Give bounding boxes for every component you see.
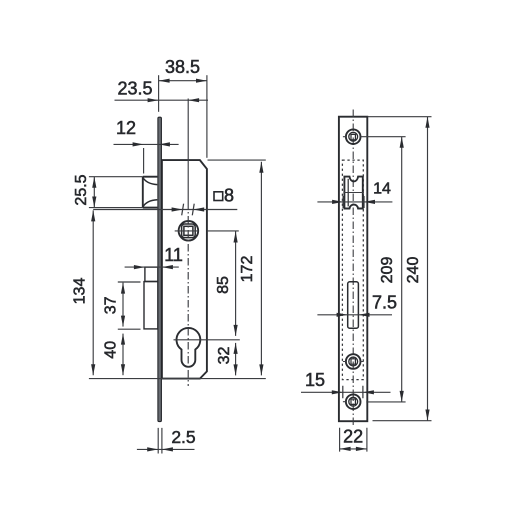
dimension 37/40 shared extension xyxy=(118,328,141,330)
dimension 37 line xyxy=(122,283,124,327)
follower center extension to 85 dimension xyxy=(207,230,239,232)
dimension 209 top extension / hole centerline xyxy=(360,136,405,138)
dimension 240 bottom extension xyxy=(373,420,432,422)
25.5 arrows xyxy=(92,177,96,188)
follower horizontal centerline xyxy=(175,230,199,232)
dimension 209 line xyxy=(401,137,403,402)
11 arrows xyxy=(134,265,145,269)
7.5 arrows xyxy=(337,313,348,317)
dimension 172 line xyxy=(260,162,262,376)
dimension square8 oblique ticks xyxy=(182,204,195,216)
svg-text:2.5: 2.5 xyxy=(171,427,195,447)
roller latch curvature top arc xyxy=(143,178,157,185)
screw hole bottom xyxy=(343,394,361,409)
roller latch front view body xyxy=(344,177,362,209)
dimension 2.5 extensions xyxy=(158,428,162,454)
svg-text:25.5: 25.5 xyxy=(73,174,90,205)
dimension 12 extension xyxy=(143,148,145,174)
follower outer circle xyxy=(179,221,199,241)
dimension 32 line xyxy=(235,343,237,376)
vertical centerline upper solid (extension of 23.5) xyxy=(187,99,189,203)
svg-text:11: 11 xyxy=(164,245,183,265)
follower hub rounded square xyxy=(182,224,196,238)
dimension 11 line xyxy=(125,266,179,268)
dimension 23.5 line xyxy=(115,99,209,101)
svg-text:240: 240 xyxy=(405,257,422,284)
svg-text:7.5: 7.5 xyxy=(372,293,397,313)
dimension 15 ticks xyxy=(343,386,363,398)
screw hole top xyxy=(343,129,361,144)
svg-text:85: 85 xyxy=(215,276,232,294)
dimension 240 top extension xyxy=(367,116,431,118)
85 arrows xyxy=(234,232,238,243)
svg-text:8: 8 xyxy=(224,186,234,206)
dimension 12 line xyxy=(114,143,179,145)
dimension 25.5 bottom extension xyxy=(89,207,143,209)
roller horizontal centerline xyxy=(343,192,364,194)
32 arrows xyxy=(234,343,238,354)
cylinder horizontal centerline and extension to 32 dimension xyxy=(174,339,240,341)
svg-text:22: 22 xyxy=(343,427,363,447)
bottom shared extension line (134/40/32/172, case bottom) xyxy=(89,378,266,380)
38.5 arrows xyxy=(159,79,170,83)
faceplate side view bar xyxy=(158,117,162,421)
svg-text:38.5: 38.5 xyxy=(165,57,200,77)
dimension square8 line xyxy=(93,209,237,211)
dimension 25.5 line xyxy=(93,177,95,208)
dimension 38.5 line xyxy=(159,80,207,82)
vertical centerline xyxy=(352,110,354,427)
roller latch side view: bottom edge xyxy=(143,207,158,209)
dimension 38.5 right extension xyxy=(206,75,208,158)
dimension 7.5 line xyxy=(317,314,392,316)
svg-text:15: 15 xyxy=(305,370,325,390)
screw hole middle xyxy=(343,354,364,369)
dimension 134 line xyxy=(92,210,94,375)
label square 8 xyxy=(214,192,223,201)
svg-text:12: 12 xyxy=(116,118,136,138)
svg-text:40: 40 xyxy=(103,341,120,359)
dimension 37 top extension xyxy=(118,281,141,283)
40 arrows xyxy=(121,334,125,345)
23.5 arrows xyxy=(148,98,159,102)
dimension 172 top extension (case top) xyxy=(208,159,266,161)
dimension 209 bottom extension xyxy=(366,401,405,403)
euro profile cylinder hole xyxy=(177,328,201,367)
svg-text:172: 172 xyxy=(239,256,256,283)
svg-text:23.5: 23.5 xyxy=(117,78,152,98)
hidden lock case dashed rectangle xyxy=(342,160,363,380)
dimension 2.5 line xyxy=(137,448,195,450)
dimension 38.5 left extension xyxy=(158,75,160,112)
14 arrows xyxy=(332,200,343,204)
dimension 14 ticks xyxy=(343,196,364,208)
dimension 40 line xyxy=(122,334,124,376)
vertical centerline dash-dot through follower and cylinder xyxy=(187,202,189,386)
dimension 25.5 top extension xyxy=(89,176,143,178)
12 arrows xyxy=(133,142,144,146)
svg-text:32: 32 xyxy=(216,347,233,365)
roller latch curvature bottom arc xyxy=(143,200,157,207)
15 arrows xyxy=(332,390,343,394)
37 arrows xyxy=(121,283,125,294)
fixing slot xyxy=(348,282,359,328)
faceplate front outline xyxy=(339,117,367,422)
dimension 15 line xyxy=(301,391,391,393)
cylinder housing upper box xyxy=(145,267,158,281)
dimension 14 line xyxy=(317,201,392,203)
cylinder housing lower box (37 feature) xyxy=(144,282,158,329)
roller inner flange line xyxy=(347,179,349,207)
dimension 240 line xyxy=(427,117,429,421)
roller latch side view: top edge xyxy=(143,176,158,178)
svg-text:37: 37 xyxy=(103,296,120,314)
dimension 22 line xyxy=(340,448,367,450)
dimension 85 line xyxy=(235,232,237,336)
roller latch side view: front edge xyxy=(142,177,144,208)
follower square spindle hole 8mm xyxy=(184,226,193,235)
svg-text:209: 209 xyxy=(379,257,396,284)
square8 arrows xyxy=(172,207,183,211)
134 arrows xyxy=(91,210,95,221)
svg-text:14: 14 xyxy=(373,181,391,198)
172 arrows xyxy=(259,162,263,173)
lock case body xyxy=(162,160,207,379)
209 arrows xyxy=(400,137,404,148)
svg-text:134: 134 xyxy=(72,278,89,305)
2.5 arrows xyxy=(147,447,158,451)
22 arrows xyxy=(340,447,351,451)
240 arrows xyxy=(425,117,429,128)
dimension 22 extensions xyxy=(340,428,367,452)
